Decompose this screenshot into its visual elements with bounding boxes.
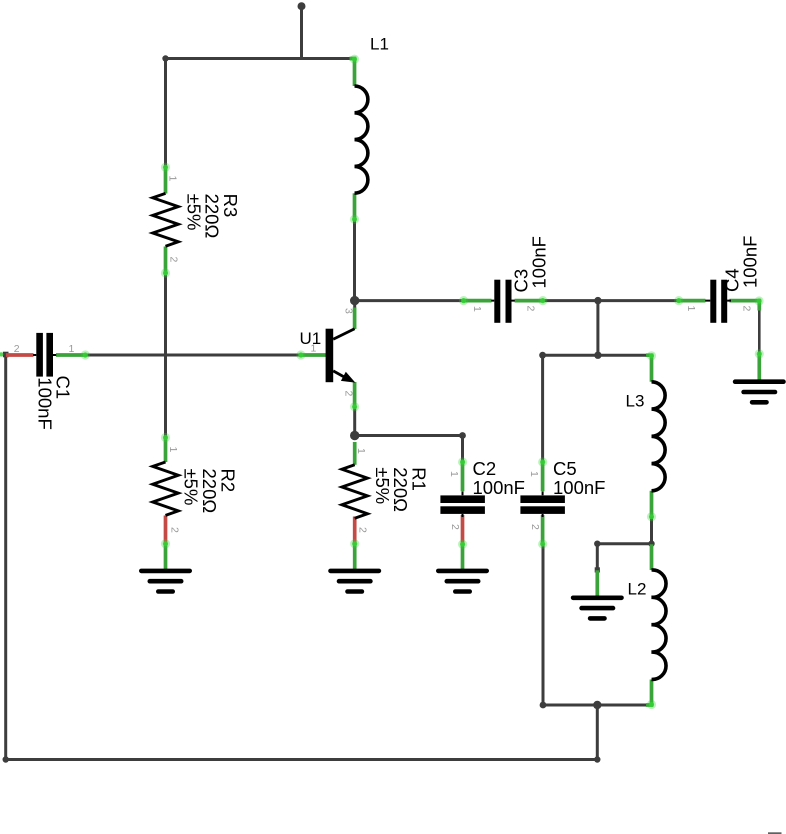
node C3 pin1 endpoint [459, 296, 468, 305]
ground C2 [438, 571, 486, 592]
svg-text:2: 2 [741, 306, 753, 312]
wire R1 pin2 leg red [353, 517, 357, 544]
svg-text:3: 3 [343, 308, 355, 314]
wire tank bottom horizontal [543, 704, 652, 707]
wire C5 pin2 leg [541, 515, 545, 544]
wire U1 emitter leg [353, 382, 357, 407]
inductor L1 coil [355, 86, 368, 193]
label R2 value [180, 469, 238, 514]
resistor R2 zigzag [153, 462, 179, 515]
node L1 pin1 endpoint [350, 55, 359, 64]
ground L2 tap [573, 598, 621, 619]
wire C2 pin2 leg red [461, 515, 465, 544]
wire C2 plate stubs [462, 492, 464, 518]
wire L3 pin2 leg [650, 491, 654, 517]
wire ground5 leg [595, 570, 599, 595]
svg-text:±5%: ±5% [372, 467, 393, 504]
wire L3 bottom to junction [650, 517, 653, 544]
wire C4 pin2 leg [729, 301, 759, 311]
wire C3 to C4 [543, 299, 677, 302]
node top stub end dot [298, 2, 306, 10]
wire U1 base leg [300, 353, 329, 357]
node C1 pin1 endpoint [81, 350, 90, 359]
wire R3 pin1 leg [164, 167, 168, 194]
wire bottom horizontal feedback [6, 758, 598, 761]
wire jog to ground [596, 544, 599, 571]
svg-text:L3: L3 [626, 392, 645, 411]
wire left vertical to R3 [164, 59, 167, 168]
node top-left corner [162, 55, 168, 61]
node C3 pin2 endpoint [538, 296, 547, 305]
svg-text:1: 1 [69, 343, 75, 355]
wire tank top horizontal [543, 354, 646, 357]
capacitor C3 plates [494, 280, 500, 323]
capacitor C4 plates [710, 280, 716, 323]
svg-text:L1: L1 [370, 35, 389, 54]
wire L1 pin1 leg [350, 59, 355, 87]
label C2 value [473, 458, 525, 498]
label R1 value [372, 467, 430, 512]
node far-left bottom corner [2, 756, 8, 762]
wire R2 pin1 leg [164, 437, 168, 462]
bottom right artifact [768, 832, 782, 834]
wire L1 pin2 leg [353, 193, 357, 219]
label C4 value [721, 236, 760, 292]
wire C1 pin2 leg red [6, 353, 34, 357]
node C5 pin2 endpoint [538, 539, 547, 548]
node tank top left corner [539, 352, 546, 359]
svg-text:100nF: 100nF [553, 477, 605, 498]
wire C2 ground leg [461, 544, 465, 570]
node L2 pin2 endpoint [647, 700, 656, 709]
wire C3 pin2 leg [515, 299, 544, 303]
svg-text:2: 2 [449, 524, 461, 530]
wire C4 ground leg [757, 354, 761, 380]
label C3 value [511, 236, 550, 292]
svg-text:2: 2 [529, 524, 541, 530]
node C2 corner [459, 432, 466, 439]
wire top stub [300, 6, 303, 59]
svg-text:±5%: ±5% [183, 194, 204, 231]
wire C1 to U1 base horizontal [86, 354, 302, 357]
wire R1 ground leg [353, 544, 357, 570]
wire C4 pin1 leg [678, 299, 706, 303]
svg-text:1: 1 [528, 471, 540, 477]
wire R2 pin2 leg red [164, 516, 168, 544]
svg-text:1: 1 [355, 448, 367, 454]
wire L3-L2 jog horizontal [597, 542, 651, 545]
node L3 pin2 endpoint [647, 512, 656, 521]
wire C3 plate stubs [491, 300, 515, 302]
wire C4 drop [758, 301, 761, 354]
svg-text:L2: L2 [628, 580, 647, 599]
inductor L3 coil [652, 382, 666, 491]
wire C5 upper vertical [541, 355, 544, 461]
svg-text:1: 1 [167, 176, 179, 182]
resistor R1 zigzag [342, 465, 368, 518]
svg-text:2: 2 [169, 527, 181, 533]
node C4 pin2 endpoint [755, 296, 764, 305]
node R2 ground endpoint [161, 539, 170, 548]
wire C1 plate stubs [33, 354, 56, 356]
label C1 value [34, 376, 73, 430]
wire C2 pin1 leg [461, 461, 465, 492]
node L1 pin2 endpoint [350, 215, 359, 224]
label C5 value [553, 458, 605, 498]
wire emitter down [353, 407, 356, 436]
node bottom right corner [594, 756, 600, 762]
wire collector junction stub [353, 298, 356, 308]
ground R1 [331, 571, 379, 592]
wire R2 ground leg [164, 544, 168, 570]
svg-text:100nF: 100nF [473, 477, 525, 498]
node U1 base endpoint [296, 350, 305, 359]
wire collector to C3 [355, 299, 462, 302]
wire C2 drop [461, 436, 464, 462]
svg-text:100nF: 100nF [528, 236, 549, 288]
node emitter junction [350, 431, 359, 440]
svg-text:1: 1 [448, 471, 460, 477]
node collector junction [350, 296, 359, 305]
node U1 emitter endpoint [350, 402, 359, 411]
svg-text:2: 2 [168, 257, 180, 263]
inductor L2 coil [652, 570, 667, 679]
wire L1 bottom to collector junction [353, 220, 356, 301]
wire C3 pin1 leg [462, 299, 492, 303]
wire bottom right riser [596, 705, 599, 760]
wire C4 plate stubs [705, 300, 731, 302]
svg-text:±5%: ±5% [180, 469, 201, 506]
capacitor C5 plates [520, 495, 565, 503]
node C5 pin1 endpoint [538, 457, 547, 466]
resistor R3 zigzag [153, 193, 179, 246]
node C3 drop top [594, 297, 601, 304]
node C3 drop bottom [594, 352, 601, 359]
svg-text:100nF: 100nF [34, 377, 55, 429]
svg-text:1: 1 [167, 447, 179, 453]
node C2 ground endpoint [458, 540, 467, 549]
node C2 pin1 endpoint [458, 457, 467, 466]
transistor U1 [326, 329, 356, 383]
svg-text:1: 1 [311, 343, 317, 355]
node far-left top corner [3, 352, 9, 358]
svg-text:2: 2 [343, 391, 355, 397]
node L3 pin1 endpoint [647, 351, 656, 360]
wire L3 pin1 leg [646, 355, 652, 382]
wire C3 junction drop [596, 301, 599, 356]
node R3 pin2 endpoint [161, 268, 170, 277]
wire C5 plate stubs [542, 492, 544, 518]
wire C5 lower vertical [542, 544, 545, 705]
svg-text:2: 2 [525, 306, 537, 312]
ground C4 [735, 382, 783, 403]
wire emitter junction to C2 [355, 434, 463, 437]
svg-text:2: 2 [14, 343, 20, 355]
capacitor C2 plates [440, 495, 485, 503]
label R3 value [183, 194, 241, 239]
svg-text:100nF: 100nF [739, 236, 760, 288]
wire L2 pin2 leg [646, 680, 652, 706]
wire R3 to R2 vertical [164, 275, 167, 438]
wire C5 pin1 leg [541, 461, 545, 492]
wire L2 pin1 leg [650, 544, 654, 570]
wire C1 pin1 leg [56, 353, 86, 357]
node R3 pin1 endpoint [161, 163, 170, 172]
node R2 pin1 endpoint [161, 433, 170, 442]
node C4 ground endpoint [755, 349, 764, 358]
svg-text:1: 1 [685, 306, 697, 312]
svg-text:1: 1 [471, 306, 483, 312]
node L3 L2 junction [648, 541, 654, 547]
node tank bottom left corner [540, 702, 547, 709]
wire top horizontal [164, 57, 351, 60]
node jog left corner [594, 541, 600, 547]
svg-text:2: 2 [357, 527, 369, 533]
node tank bottom junction [593, 701, 601, 709]
wire R3 pin2 leg [164, 247, 168, 275]
capacitor C1 plates [36, 333, 43, 377]
node R1 ground endpoint [350, 539, 359, 548]
node C4 pin1 endpoint [674, 296, 683, 305]
ground R2 [141, 571, 189, 592]
wire U1 collector leg [353, 308, 357, 330]
wire R1 pin1 leg [353, 442, 357, 465]
wire far-left vertical feedback [4, 355, 7, 760]
